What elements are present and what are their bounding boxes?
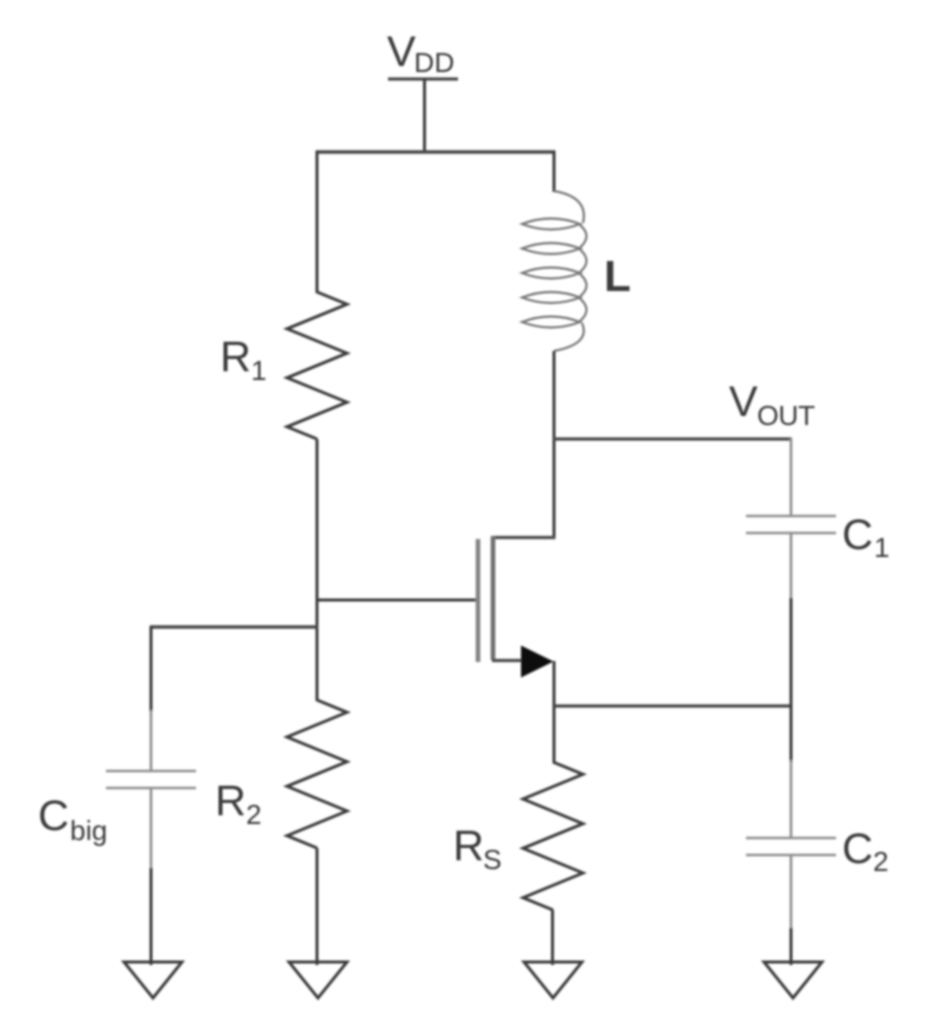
wire C2 top lead xyxy=(790,706,793,762)
resistor RS xyxy=(523,762,583,910)
inductor L coil arcs xyxy=(554,191,584,223)
svg-text:1: 1 xyxy=(874,532,890,563)
wire RS bottom lead xyxy=(551,910,554,965)
svg-text:R: R xyxy=(215,777,246,825)
wire L bottom to drain xyxy=(553,351,556,539)
transistor M1 channel bar xyxy=(491,536,496,660)
ground under Cbig xyxy=(124,962,182,998)
transistor M1 gate bar xyxy=(476,539,481,662)
svg-text:R: R xyxy=(453,822,484,870)
wire R2 bottom lead xyxy=(316,848,319,965)
resistor R1 xyxy=(287,292,347,439)
svg-text:2: 2 xyxy=(873,846,889,877)
wire L top lead xyxy=(553,151,556,192)
capacitor C1 xyxy=(746,515,836,518)
wire source to C node xyxy=(553,704,792,707)
transistor M1 source arrow xyxy=(521,646,554,678)
wire VOUT horizontal xyxy=(553,437,792,440)
capacitor C2 xyxy=(746,837,836,840)
wire gate xyxy=(316,599,477,602)
svg-text:1: 1 xyxy=(251,355,267,386)
svg-text:2: 2 xyxy=(246,799,262,830)
node VDD power symbol bar xyxy=(388,77,458,80)
transistor M1 drain lead xyxy=(492,536,556,539)
wire C1 bottom lead xyxy=(790,533,793,600)
svg-text:OUT: OUT xyxy=(757,400,815,431)
svg-text:R: R xyxy=(220,333,251,381)
wire Cbig vertical top xyxy=(150,626,153,712)
svg-text:V: V xyxy=(387,28,416,76)
ground under RS xyxy=(524,962,582,998)
svg-text:C: C xyxy=(842,825,873,873)
wire R1 top lead xyxy=(316,151,319,293)
resistor R2 xyxy=(287,700,347,848)
svg-text:L: L xyxy=(604,252,631,301)
capacitor Cbig xyxy=(106,770,196,773)
ground under C2 xyxy=(764,962,822,998)
inductor L loops xyxy=(522,219,580,230)
wire top rail xyxy=(316,150,556,154)
wire RS top lead xyxy=(553,706,556,763)
svg-text:S: S xyxy=(483,844,502,875)
svg-text:DD: DD xyxy=(414,47,454,78)
svg-text:big: big xyxy=(70,815,107,846)
wire Cbig branch horizontal xyxy=(150,625,319,628)
wire Cbig vertical bottom xyxy=(150,788,153,870)
svg-text:C: C xyxy=(38,792,69,840)
wire C1 top lead xyxy=(790,438,793,516)
wire R1 bottom to gate node xyxy=(316,439,319,701)
svg-text:C: C xyxy=(842,511,873,559)
wire source down xyxy=(553,661,556,707)
transistor M1 source lead xyxy=(492,659,540,662)
svg-text:V: V xyxy=(729,378,758,426)
ground under R2 xyxy=(289,962,347,998)
wire C2 bottom lead xyxy=(790,855,793,930)
wire VDD stem xyxy=(423,79,426,153)
